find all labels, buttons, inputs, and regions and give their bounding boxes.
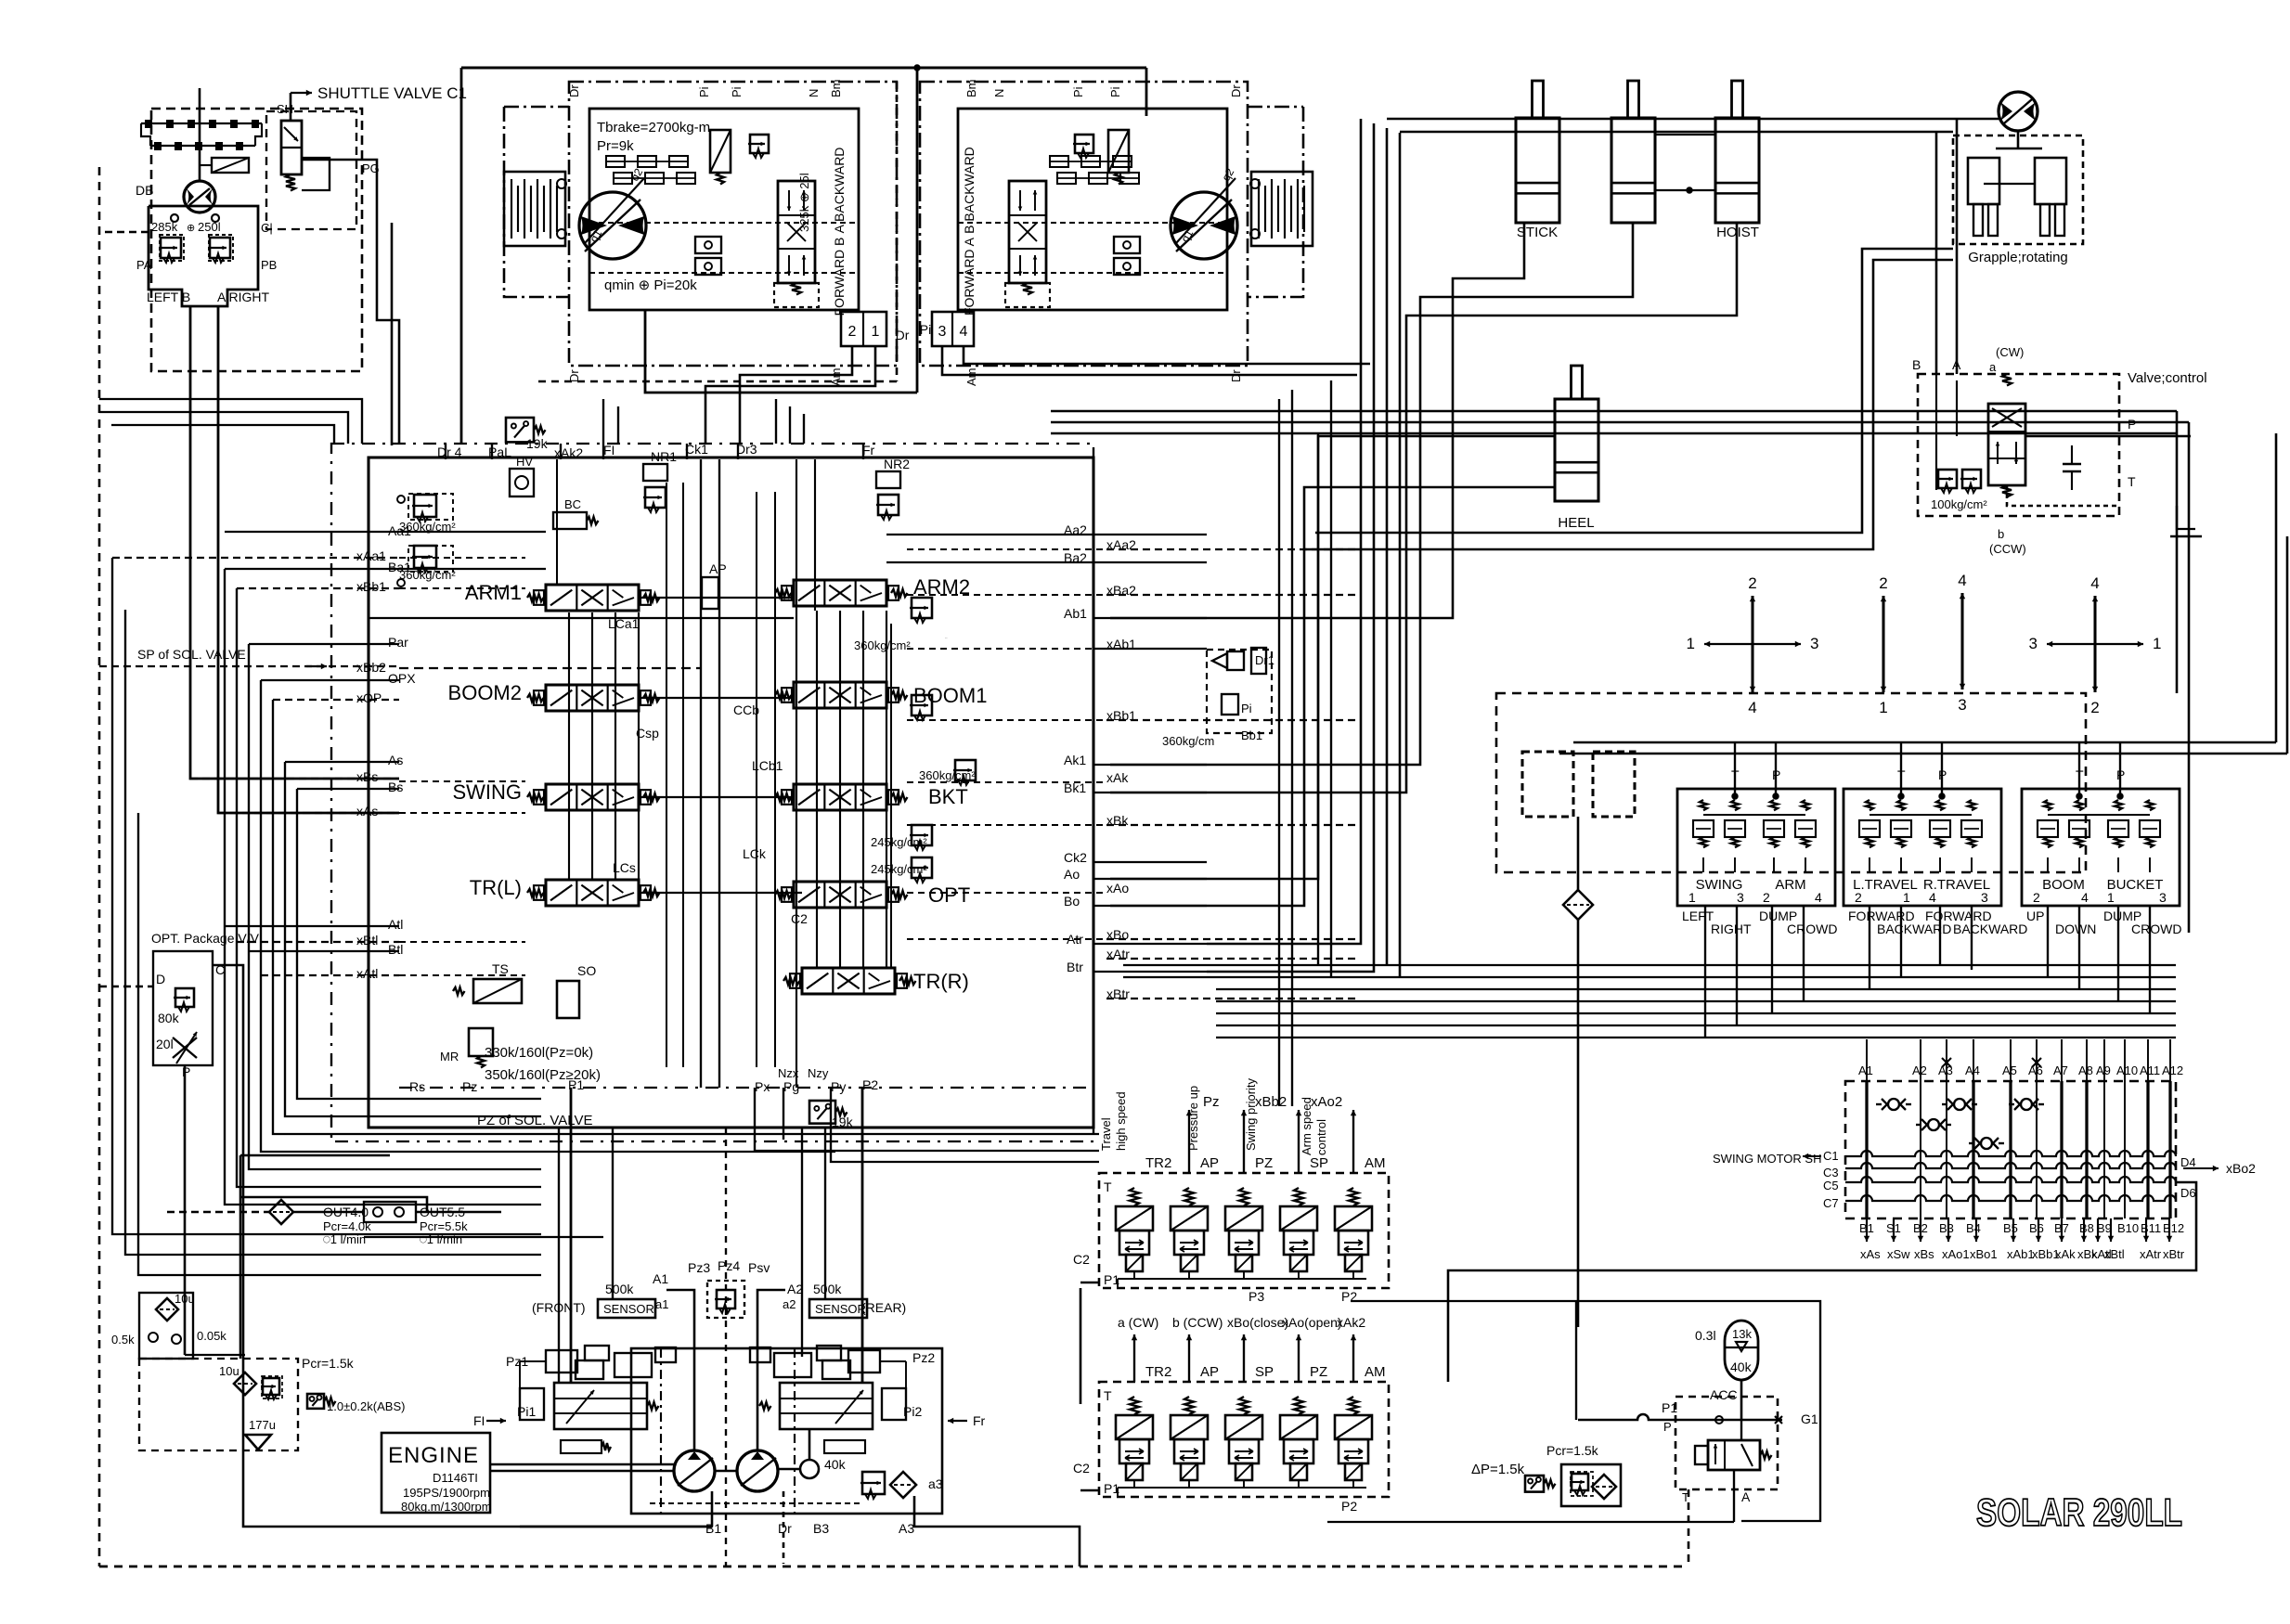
hydraulic pump <box>674 1450 715 1491</box>
hydraulic cylinder <box>1611 118 1655 223</box>
svg-text:UP: UP <box>2026 909 2044 923</box>
svg-text:xAo2: xAo2 <box>1311 1094 1342 1110</box>
remote control valve L.TRAVEL/R.TRAVEL <box>1844 789 2001 906</box>
svg-text:xBs: xBs <box>1914 1247 1934 1261</box>
relief valve <box>953 760 976 785</box>
svg-text:20l: 20l <box>156 1037 174 1051</box>
svg-text:Dr1: Dr1 <box>1255 653 1274 667</box>
svg-text:SHUTTLE VALVE C1: SHUTTLE VALVE C1 <box>317 84 467 102</box>
svg-text:SOLAR 290LL: SOLAR 290LL <box>1976 1490 2182 1534</box>
P T feed verticals right <box>2275 433 2278 742</box>
svg-text:T: T <box>2128 474 2136 489</box>
far left verticals <box>112 558 541 1234</box>
svg-text:Btr: Btr <box>1067 960 1083 974</box>
svg-text:100kg/cm²: 100kg/cm² <box>1931 497 1987 511</box>
hydraulic cylinder <box>1516 118 1559 223</box>
svg-text:AP: AP <box>1200 1155 1219 1171</box>
svg-text:0.3l: 0.3l <box>1695 1328 1716 1343</box>
svg-text:RIGHT: RIGHT <box>1711 922 1752 936</box>
T P rails <box>1573 741 2120 744</box>
svg-text:Tbrake=2700kg-m: Tbrake=2700kg-m <box>597 120 710 135</box>
relief valve <box>910 695 932 720</box>
svg-text:245kg/cm²: 245kg/cm² <box>871 862 927 876</box>
svg-text:AP: AP <box>1200 1364 1219 1380</box>
svg-text:3: 3 <box>2159 890 2167 905</box>
MCV top port stubs <box>445 444 446 459</box>
remote control valve SWING/ARM <box>1677 789 1835 906</box>
svg-text:A2: A2 <box>1912 1063 1927 1077</box>
regulator rear <box>780 1383 873 1429</box>
relief valve <box>1936 470 1957 493</box>
svg-text:xAk2: xAk2 <box>1337 1315 1365 1330</box>
joystick lever cross <box>1960 593 1963 641</box>
svg-text:Pz4: Pz4 <box>718 1258 740 1273</box>
relief valve <box>715 1290 735 1313</box>
MCV bottom boundary <box>399 1087 1093 1089</box>
Dr1 compensator cluster <box>1207 650 1272 733</box>
svg-text:Pi: Pi <box>697 86 711 97</box>
left pilot feed bundle <box>225 531 399 533</box>
strainer 10u top <box>139 1293 193 1359</box>
svg-text:SP: SP <box>1255 1364 1274 1380</box>
svg-text:a3: a3 <box>928 1476 943 1491</box>
svg-text:A BACKWARD: A BACKWARD <box>832 148 847 234</box>
svg-text:4: 4 <box>1748 699 1756 716</box>
stick hoist feeds <box>1110 223 1524 618</box>
solenoid valve <box>1239 1397 1249 1414</box>
svg-text:1: 1 <box>2153 635 2161 652</box>
solenoid valve <box>1294 1188 1303 1205</box>
hydraulic cylinder <box>1715 118 1759 223</box>
svg-text:P1: P1 <box>1104 1272 1119 1287</box>
MCV to right bundle <box>1093 534 1207 535</box>
svg-text:PZ: PZ <box>1255 1155 1273 1171</box>
svg-text:Pz: Pz <box>1203 1094 1220 1110</box>
svg-text:B11: B11 <box>2141 1221 2161 1235</box>
check valve <box>1928 1119 1939 1130</box>
svg-text:Pcr=1.5k: Pcr=1.5k <box>1546 1443 1599 1458</box>
relief valve <box>1073 135 1093 158</box>
pressure switch <box>809 1101 835 1124</box>
svg-text:xAk: xAk <box>2055 1247 2076 1261</box>
svg-text:1: 1 <box>1688 890 1696 905</box>
svg-text:⊕: ⊕ <box>187 223 195 234</box>
svg-text:3: 3 <box>1737 890 1744 905</box>
brake shuttle network <box>1050 156 1068 167</box>
svg-text:D4: D4 <box>2180 1155 2196 1169</box>
front servo cluster <box>546 1350 577 1373</box>
filter <box>156 1298 178 1321</box>
speed solenoid valve <box>710 130 731 173</box>
upper right horizontals <box>1051 410 2177 413</box>
relief valve <box>876 495 899 520</box>
zone: swing manifold <box>1845 1081 2176 1218</box>
nest into MCV top-left <box>99 399 362 444</box>
svg-text:2: 2 <box>2033 890 2040 905</box>
svg-text:A1: A1 <box>1858 1063 1873 1077</box>
sensor rear <box>809 1299 867 1318</box>
svg-text:Pi: Pi <box>1108 86 1122 97</box>
svg-text:xAb1: xAb1 <box>2007 1247 2035 1261</box>
svg-text:LCk: LCk <box>743 846 767 861</box>
HV valve <box>510 469 534 496</box>
svg-text:A7: A7 <box>2053 1063 2068 1077</box>
pz vertical feeds <box>570 1088 573 1383</box>
svg-text:T: T <box>1104 1179 1112 1194</box>
svg-text:Pz2: Pz2 <box>912 1350 935 1365</box>
svg-text:2: 2 <box>1879 574 1887 592</box>
svg-text:Bm: Bm <box>829 80 843 98</box>
nest into MCV top from travel <box>775 399 777 444</box>
svg-text:13k: 13k <box>1732 1327 1752 1341</box>
svg-text:G1: G1 <box>1801 1411 1818 1426</box>
bank connection wires <box>1080 1288 1082 1404</box>
svg-text:xOP: xOP <box>356 690 382 705</box>
relief valve <box>910 598 932 623</box>
svg-text:4: 4 <box>2090 574 2099 592</box>
svg-text:xAtl: xAtl <box>356 966 378 981</box>
bank output to acc <box>1351 1301 1820 1521</box>
svg-text:b: b <box>1998 527 2004 541</box>
opt package wires <box>99 986 153 988</box>
svg-text:P2: P2 <box>1341 1499 1357 1514</box>
solenoid bank enclosure <box>1099 1382 1389 1497</box>
check valve <box>1981 1138 1992 1149</box>
relief valve <box>174 988 194 1012</box>
svg-text:Btl: Btl <box>388 942 403 957</box>
acc valve box <box>1675 1397 1778 1489</box>
hydraulic cylinder <box>1555 399 1598 501</box>
svg-text:A8: A8 <box>2078 1063 2093 1077</box>
svg-text:xAo: xAo <box>1106 881 1129 896</box>
svg-text:1: 1 <box>872 324 880 340</box>
opt package box <box>153 951 213 1065</box>
heel feeds <box>1110 436 1555 879</box>
svg-text:B1: B1 <box>705 1521 721 1536</box>
D6 return wire <box>1448 1182 2196 1382</box>
A3 A6 x-marks <box>1942 1058 1951 1067</box>
svg-text:B BACKWARD: B BACKWARD <box>962 147 977 234</box>
svg-text:xBtl: xBtl <box>356 933 378 947</box>
svg-text:Bm: Bm <box>964 80 978 98</box>
spool valve body <box>794 784 886 810</box>
svg-text:A11: A11 <box>2140 1063 2160 1077</box>
svg-text:Dr3: Dr3 <box>736 442 757 457</box>
svg-text:NR1: NR1 <box>651 449 677 464</box>
manifold horizontal C lines <box>1845 1151 2176 1156</box>
pilot check pair <box>695 237 721 253</box>
svg-text:b (CCW): b (CCW) <box>1172 1315 1223 1330</box>
svg-text:BOOM: BOOM <box>2042 877 2085 893</box>
svg-text:B: B <box>1912 357 1921 372</box>
svg-text:Pcr=5.5k: Pcr=5.5k <box>420 1219 468 1233</box>
svg-text:TR2: TR2 <box>1145 1155 1171 1171</box>
hydraulic motor <box>579 192 646 259</box>
svg-text:AM: AM <box>1365 1155 1386 1171</box>
svg-text:A10: A10 <box>2116 1063 2138 1077</box>
svg-text:LEFT: LEFT <box>1682 909 1714 923</box>
svg-text:HEEL: HEEL <box>1558 515 1594 531</box>
svg-text:FI: FI <box>603 443 615 458</box>
rcv riser bundle <box>1704 906 1706 1038</box>
lower tank box <box>139 1359 298 1450</box>
svg-text:2: 2 <box>2090 699 2099 716</box>
svg-text:T: T <box>1104 1388 1112 1403</box>
svg-text:ACC: ACC <box>1710 1387 1738 1402</box>
svg-text:0.05k: 0.05k <box>197 1329 226 1343</box>
filter <box>1592 1475 1616 1499</box>
pilot x-line rail right <box>1106 548 1355 550</box>
svg-text:500k: 500k <box>605 1282 634 1296</box>
MCV dashed pilot internals <box>399 557 525 559</box>
svg-text:4: 4 <box>1958 572 1966 589</box>
solenoid valve <box>1184 1397 1194 1414</box>
svg-text:500k: 500k <box>813 1282 842 1296</box>
svg-text:xAtr: xAtr <box>2140 1247 2162 1261</box>
svg-text:250l: 250l <box>198 220 221 234</box>
svg-text:B9: B9 <box>2097 1221 2112 1235</box>
relief valve <box>412 495 436 522</box>
svg-text:A: A <box>1741 1489 1751 1504</box>
svg-text:P1: P1 <box>1662 1400 1677 1415</box>
svg-text:LCa1: LCa1 <box>945 638 948 639</box>
lower bank port texts <box>1133 1334 1135 1382</box>
spool valve body <box>546 585 639 611</box>
svg-text:4: 4 <box>1929 890 1936 905</box>
travel motor outer frames <box>504 107 569 297</box>
svg-text:a: a <box>1989 360 1997 374</box>
svg-text:xBo(close): xBo(close) <box>1227 1315 1288 1330</box>
relief valve <box>412 546 436 573</box>
svg-text:TR(R): TR(R) <box>913 970 969 993</box>
solenoid bank enclosure <box>1099 1173 1389 1288</box>
svg-text:Ab1: Ab1 <box>1064 606 1087 621</box>
svg-text:Ck1: Ck1 <box>685 442 708 457</box>
pressure switch <box>307 1394 324 1409</box>
svg-text:PZ of SOL. VALVE: PZ of SOL. VALVE <box>477 1113 593 1128</box>
regulator front <box>554 1383 647 1429</box>
acc wires <box>1740 1380 1743 1420</box>
relief valve <box>208 238 230 263</box>
svg-text:N: N <box>807 89 821 97</box>
spool valve body <box>802 968 895 994</box>
svg-text:1: 1 <box>1879 699 1887 716</box>
svg-text:330k/160l(Pz=0k): 330k/160l(Pz=0k) <box>485 1045 593 1061</box>
svg-text:Am: Am <box>829 368 843 387</box>
relief valve <box>910 825 932 850</box>
svg-text:Pcr=4.0k: Pcr=4.0k <box>323 1219 371 1233</box>
svg-text:AP: AP <box>709 561 727 576</box>
relief valve <box>910 857 932 883</box>
spool valve body <box>546 880 639 906</box>
svg-text:P1: P1 <box>1104 1481 1119 1496</box>
svg-text:Dr: Dr <box>567 84 581 97</box>
travel motor inner box <box>958 109 1227 310</box>
center Pi solid vertical <box>916 68 919 393</box>
svg-text:control: control <box>1314 1119 1328 1155</box>
grapple feed <box>1387 118 1999 121</box>
svg-text:xSw: xSw <box>1887 1247 1910 1261</box>
svg-text:360kg/cm²: 360kg/cm² <box>919 768 976 782</box>
hydraulic motor <box>1999 92 2038 131</box>
svg-text:C2: C2 <box>1073 1461 1090 1476</box>
brake plate stack <box>1251 172 1313 246</box>
svg-text:B3: B3 <box>813 1521 829 1536</box>
valve control feeds <box>1935 132 1938 374</box>
solenoid valve <box>1349 1188 1358 1205</box>
check valve <box>1888 1099 1899 1110</box>
svg-text:A5: A5 <box>2002 1063 2017 1077</box>
port down arrows <box>1866 1218 1868 1242</box>
svg-text:1: 1 <box>2107 890 2115 905</box>
flow control <box>173 1038 197 1058</box>
hydraulic motor <box>1171 192 1237 259</box>
counterbalance spool <box>1009 181 1046 283</box>
relief valve <box>1570 1474 1588 1495</box>
svg-text:10u: 10u <box>219 1364 239 1378</box>
filter <box>1563 890 1593 920</box>
svg-text:D1146TI: D1146TI <box>433 1471 478 1485</box>
svg-text:BC: BC <box>564 497 581 511</box>
svg-text:Pressure up: Pressure up <box>1186 1086 1200 1151</box>
svg-text:FORWARD A: FORWARD A <box>962 237 977 316</box>
svg-text:2: 2 <box>1855 890 1862 905</box>
svg-text:A3: A3 <box>899 1521 914 1536</box>
svg-text:ENGINE: ENGINE <box>388 1443 479 1468</box>
svg-text:OPX: OPX <box>388 671 416 686</box>
svg-text:19k: 19k <box>526 436 549 451</box>
svg-text:FORWARD B: FORWARD B <box>832 238 847 316</box>
svg-text:350k/160l(Pz≥20k): 350k/160l(Pz≥20k) <box>485 1067 601 1083</box>
svg-text:4: 4 <box>1815 890 1822 905</box>
svg-text:Bb1: Bb1 <box>1241 728 1262 742</box>
rcv housing dashed <box>1496 693 2086 872</box>
svg-text:40k: 40k <box>824 1457 847 1472</box>
check valve <box>2021 1099 2032 1110</box>
svg-text:177u: 177u <box>249 1418 276 1432</box>
svg-text:1: 1 <box>1687 635 1695 652</box>
svg-text:Par: Par <box>388 635 408 650</box>
svg-text:C3: C3 <box>1823 1166 1839 1179</box>
svg-text:(CW): (CW) <box>1996 345 2024 359</box>
svg-text:P3: P3 <box>1249 1289 1264 1304</box>
svg-text:(REAR): (REAR) <box>861 1300 906 1315</box>
svg-text:Atl: Atl <box>388 917 403 932</box>
svg-text:A9: A9 <box>2096 1063 2111 1077</box>
svg-text:OPT. Package V/V: OPT. Package V/V <box>151 931 260 946</box>
svg-text:MR: MR <box>440 1050 459 1063</box>
counterbalance spool <box>778 181 815 283</box>
svg-text:xBb2: xBb2 <box>1255 1094 1287 1110</box>
svg-text:SWING MOTOR SH: SWING MOTOR SH <box>1713 1152 1821 1166</box>
svg-text:Pi: Pi <box>1241 702 1252 715</box>
svg-text:STICK: STICK <box>1517 225 1558 240</box>
svg-text:285k: 285k <box>151 220 178 234</box>
hydraulic motor <box>184 181 215 213</box>
joystick linkage <box>199 88 201 181</box>
svg-text:A4: A4 <box>1965 1063 1980 1077</box>
svg-text:FI: FI <box>473 1413 485 1428</box>
pilot solenoid valve <box>212 158 249 173</box>
svg-text:Ck2: Ck2 <box>1064 850 1087 865</box>
svg-text:P: P <box>182 1064 190 1079</box>
pump housing <box>631 1348 942 1514</box>
top bus wires <box>461 66 1146 69</box>
svg-text:xBo1: xBo1 <box>1970 1247 1998 1261</box>
relief valve <box>1960 470 1981 493</box>
svg-text:A12: A12 <box>2162 1063 2183 1077</box>
svg-text:As: As <box>388 753 403 767</box>
svg-text:P2: P2 <box>862 1077 878 1092</box>
svg-text:PZ: PZ <box>1310 1364 1327 1380</box>
svg-text:LEFT B: LEFT B <box>147 290 190 304</box>
accumulator <box>1725 1321 1758 1380</box>
pilot pump <box>800 1460 819 1478</box>
joystick lever cross <box>1882 596 1884 644</box>
zone left wires <box>185 1354 245 1356</box>
remote control valve BOOM/BUCKET <box>2022 789 2180 906</box>
svg-text:3: 3 <box>938 324 947 340</box>
shuttle valve <box>290 93 292 121</box>
svg-text:Bo: Bo <box>1064 894 1080 909</box>
svg-text:TR(L): TR(L) <box>470 876 522 899</box>
svg-text:NR2: NR2 <box>884 457 910 471</box>
MCV boundary <box>369 458 1093 1128</box>
pressure switch <box>1525 1476 1544 1492</box>
NR1 check <box>643 464 667 481</box>
svg-text:xAk2: xAk2 <box>554 445 583 460</box>
svg-text:Ba1: Ba1 <box>388 560 411 574</box>
speed solenoid valve <box>1108 130 1129 173</box>
relief valve <box>261 1378 279 1399</box>
capacitor symbol <box>2063 463 2081 466</box>
svg-text:xAs: xAs <box>356 804 378 818</box>
junction box risers <box>740 346 852 444</box>
relief valve <box>860 1472 885 1499</box>
svg-text:C7: C7 <box>1823 1196 1839 1210</box>
svg-text:SO: SO <box>577 963 596 978</box>
svg-text:B6: B6 <box>2029 1221 2044 1235</box>
extra supply verticals <box>558 1128 560 1383</box>
check valve <box>1954 1099 1965 1110</box>
svg-text:ΔP=1.5k: ΔP=1.5k <box>1471 1462 1525 1477</box>
manifold risers horizontal <box>1123 964 2176 966</box>
svg-text:N: N <box>992 89 1006 97</box>
solenoid valve <box>1294 1397 1303 1414</box>
pilot block wires <box>99 231 149 234</box>
svg-text:xAo(open): xAo(open) <box>1282 1315 1342 1330</box>
svg-text:xAk: xAk <box>1106 770 1129 785</box>
svg-text:BOOM2: BOOM2 <box>448 681 522 704</box>
svg-text:Ao: Ao <box>1064 867 1080 882</box>
svg-text:SP of SOL. VALVE: SP of SOL. VALVE <box>137 647 246 662</box>
valve control wires <box>1935 374 1937 490</box>
spool valve body <box>546 784 639 810</box>
center vertical bundle <box>1207 119 1361 944</box>
svg-text:0.5k: 0.5k <box>111 1333 135 1347</box>
OUT bypass loop <box>239 1197 427 1212</box>
brake shuttle network <box>606 156 625 167</box>
MCV internal supply rails <box>568 612 570 880</box>
svg-text:C5: C5 <box>1823 1179 1839 1192</box>
svg-text:2: 2 <box>1748 574 1756 592</box>
filter <box>890 1472 916 1498</box>
spool valve body <box>794 682 886 708</box>
Px Pg Py feeds <box>755 1088 1099 1151</box>
svg-text:Dr 4: Dr 4 <box>437 445 462 459</box>
filter <box>269 1200 293 1224</box>
svg-text:DB: DB <box>136 183 153 198</box>
